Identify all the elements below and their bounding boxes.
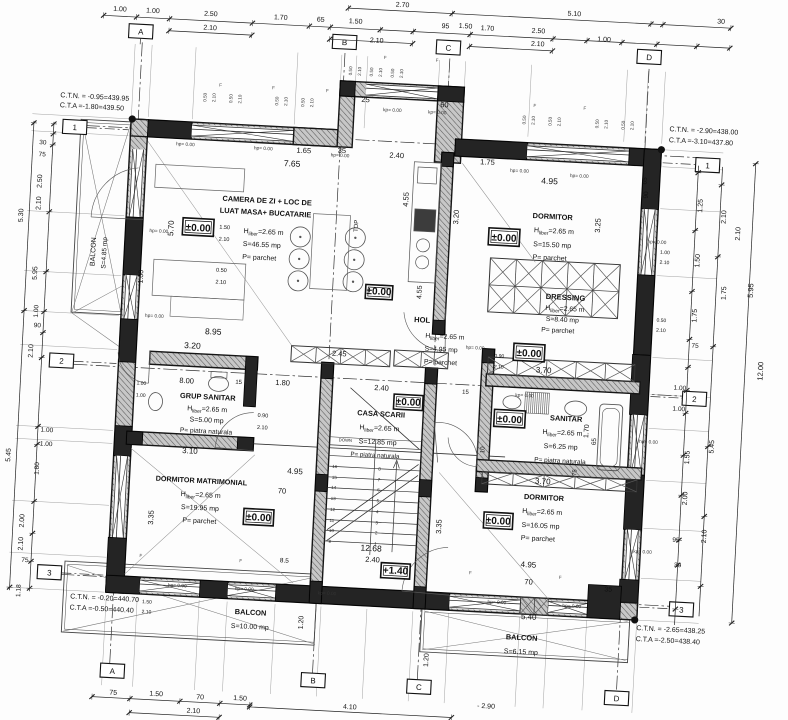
svg-text:hp= 0.00: hp= 0.00 [176,141,195,148]
window west window 2 [123,275,138,320]
wall pier grup sanitar south pier E [237,437,254,451]
svg-text:hp= 0.00: hp= 0.00 [235,586,254,593]
wall bay west [337,81,355,148]
svg-text:hp= 0.00: hp= 0.00 [330,152,349,159]
svg-text:4.55: 4.55 [416,285,424,299]
svg-text:B: B [342,38,348,47]
svg-text:90: 90 [34,322,42,329]
svg-text:hp= 0.00: hp= 0.00 [466,345,485,352]
dimension line top row main [101,12,732,51]
svg-text:DOWN: DOWN [339,437,353,443]
door swing matrimonial door [215,411,254,450]
svg-text:1.00: 1.00 [673,385,686,393]
svg-text:hp= 0.00: hp= 0.00 [149,228,168,235]
svg-text:5.40: 5.40 [521,612,538,622]
svg-text:95: 95 [672,537,680,544]
svg-text:1.70: 1.70 [480,25,494,33]
matrimonial bed diagonals [124,448,299,583]
svg-text:2.10: 2.10 [237,94,242,104]
svg-text:4.10: 4.10 [343,704,357,712]
staircase treads [324,437,422,558]
dimension line top sub 2.10 c [467,43,555,54]
dimension line left outer [6,120,37,590]
svg-text:30: 30 [39,139,47,146]
window west balcony door [128,149,145,218]
svg-text:±0.00: ±0.00 [485,516,511,528]
svg-text:1.75: 1.75 [721,286,729,300]
svg-text:3.20: 3.20 [184,340,201,351]
svg-text:2.10: 2.10 [530,115,535,125]
axis marker C bottom [407,679,432,694]
elevation mark casa scarii [393,394,423,410]
svg-text:2.10: 2.10 [215,280,226,287]
svg-text:4.95: 4.95 [541,175,558,186]
svg-text:2.10: 2.10 [28,344,36,358]
svg-text:65: 65 [642,177,649,185]
axis line B [312,53,345,674]
axis line D [617,69,650,690]
svg-text:F: F [326,88,329,93]
door swing dormitor2 door [432,422,479,457]
wall pier west pier grup [119,319,138,363]
svg-text:F: F [272,85,275,90]
axis marker B top [332,34,357,49]
wall pier east bottom corner [618,579,639,620]
extension lines bottom [102,595,107,685]
svg-text:hp= 0.00: hp= 0.00 [487,599,506,606]
staircase direction arrow [389,460,400,552]
balcony left X diagonals [72,120,131,313]
wall kitchen/dormitor divider (axis C) [432,152,454,334]
wall pier stair E pier bottom [413,586,426,609]
elevation mark dormitor [488,228,520,247]
dimension line bottom row mid [247,704,454,720]
svg-text:16: 16 [332,464,338,469]
svg-text:kp= 0.00: kp= 0.00 [428,109,447,116]
svg-text:F: F [533,103,536,108]
svg-text:2.10: 2.10 [659,260,669,267]
elevation mark stair mid [381,563,411,579]
window west window matrimonial [111,456,128,539]
svg-text:hp= 0.00: hp= 0.00 [254,145,273,152]
svg-text:2.10: 2.10 [219,237,230,244]
wall pier south-west corner block [105,575,140,594]
svg-text:TOP: TOP [354,220,361,233]
svg-text:8.5: 8.5 [280,557,290,564]
svg-text:75: 75 [21,557,29,564]
svg-text:2.40: 2.40 [389,150,404,160]
svg-text:BALCON: BALCON [506,632,538,643]
elevation mark dormitor2 [483,512,513,529]
svg-text:1.50: 1.50 [349,18,363,26]
dormitor top diagonal [457,163,540,262]
svg-text:2.10: 2.10 [35,196,43,210]
svg-text:1.75: 1.75 [691,309,699,323]
svg-text:2.10: 2.10 [556,117,561,127]
svg-text:30: 30 [674,562,682,569]
svg-text:15: 15 [462,390,470,396]
wall pier south-east corner block [587,584,622,619]
svg-text:2.00: 2.00 [19,514,27,528]
svg-text:hp= 0.00: hp= 0.00 [168,582,187,589]
svg-text:0.50: 0.50 [547,116,552,126]
door swing grup sanitar door [117,352,150,383]
svg-text:30: 30 [717,18,725,25]
svg-text:1.50: 1.50 [694,254,702,268]
hatched wardrobe dormitor wardrobe 3.70 [482,472,637,492]
dimension line bottom row left [89,694,252,709]
elevation mark dressing [513,343,545,362]
svg-text:+1.40: +1.40 [383,565,409,577]
wall east exterior (axis D) [620,149,662,620]
hatched wardrobe dressing wardrobe 3.70 [487,357,635,382]
svg-text:2.10: 2.10 [603,119,608,129]
window east window dormitor [640,209,656,276]
staircase break lines [326,387,422,545]
hatched wardrobe south hatched pier [520,597,549,615]
svg-text:2.10: 2.10 [186,708,200,716]
wall sanitar west wall [475,349,494,492]
balcony left outline [71,119,132,314]
svg-text:1.50: 1.50 [459,23,473,31]
svg-text:5.10: 5.10 [567,11,581,19]
svg-text:1.00: 1.00 [33,304,41,317]
axis marker B bottom [301,673,326,688]
axis marker C top [436,40,461,55]
svg-text:2.10: 2.10 [494,364,504,371]
wall stair east wall [413,368,438,609]
svg-text:2.40: 2.40 [374,383,389,393]
wall pier north stub dormitor [455,139,528,160]
svg-text:3.20: 3.20 [451,210,461,225]
wall pier south wall stair bay solid [275,584,450,610]
svg-text:70: 70 [278,486,287,495]
svg-text:1.20: 1.20 [298,615,306,629]
window south window dorm2 [548,600,588,615]
svg-text:0.50: 0.50 [300,97,305,107]
svg-text:2.10: 2.10 [211,93,216,103]
sanitar toilet [503,395,522,409]
wall pier stair E pier top [425,368,438,385]
svg-text:65: 65 [591,437,598,445]
wall pier west pier 3 [114,425,133,456]
hatched wardrobe dressing wardrobe [488,258,621,319]
door swing dressing door [402,312,447,350]
wall grup sanitar north [149,351,258,370]
svg-text:1.25: 1.25 [697,199,705,213]
svg-text:kp= 0.00: kp= 0.00 [383,107,402,114]
svg-text:2.10: 2.10 [378,67,383,77]
svg-text:hp= 0.00: hp= 0.00 [145,313,164,320]
window south door matrimonial [140,579,201,595]
sanitar sink [564,401,587,417]
axis marker A bottom [100,663,125,678]
svg-text:0.90: 0.90 [494,353,504,360]
svg-text:12.00: 12.00 [755,362,765,381]
svg-text:75: 75 [109,690,117,697]
sanitar bathtub [597,404,623,471]
svg-text:F: F [219,82,222,87]
balcony bottom-left outline [61,561,317,645]
wall grup sanitar south [126,431,254,451]
axis line 1 (horizontal dash-dot) [86,126,699,158]
svg-text:0.50: 0.50 [620,120,625,130]
window bay window [366,83,439,100]
svg-text:14: 14 [331,485,337,490]
svg-text:hp= 0.00: hp= 0.00 [570,173,589,180]
axis marker 3 right [669,602,694,617]
dimension line right overall [729,161,759,626]
svg-text:2.10: 2.10 [531,41,545,49]
svg-text:hp= 0.00: hp= 0.00 [562,603,581,610]
svg-text:95: 95 [441,23,449,30]
hatched wardrobe stair landing beam 2.45 [291,346,391,367]
living room construction diagonal [128,128,304,346]
svg-text:C: C [445,43,451,52]
svg-text:D: D [646,53,652,62]
wall pier north stub [147,120,192,139]
svg-text:11: 11 [329,518,334,523]
svg-text:2.70: 2.70 [396,2,410,10]
svg-text:hp= 0.00: hp= 0.00 [647,239,666,246]
elevation mark sanitar [494,409,526,428]
dimension line right second [696,167,726,617]
svg-text:10: 10 [480,446,486,454]
svg-text:8.95: 8.95 [205,326,222,337]
svg-text:1.00: 1.00 [146,8,160,16]
svg-text:1.00: 1.00 [660,250,670,257]
svg-text:13: 13 [331,496,337,501]
svg-text:±0.00: ±0.00 [366,286,392,298]
axis marker 3 left [37,565,62,580]
sofa bottom [152,259,246,300]
svg-text:5.45: 5.45 [709,440,717,454]
svg-text:- 2.90: - 2.90 [477,703,495,711]
wall north wall seg2 [293,127,338,146]
svg-text:2.10: 2.10 [701,529,709,543]
svg-text:2.10: 2.10 [629,121,634,131]
window south door dorm2 [449,595,521,612]
svg-text:2.50: 2.50 [37,174,45,188]
svg-text:70: 70 [196,694,204,701]
wall pier north-east corner [629,148,662,167]
svg-text:35: 35 [604,586,612,593]
sanitar shower [524,392,549,414]
svg-text:SANITAR: SANITAR [550,413,583,424]
svg-text:1.75: 1.75 [480,157,495,167]
axis stubs [61,36,701,609]
staircase step numbers [328,437,383,546]
wall pier bay NE corner [438,86,465,102]
wall pier east pier 2 [634,275,655,356]
svg-text:12.68: 12.68 [360,543,382,554]
svg-text:3.25: 3.25 [593,218,603,233]
svg-text:2.10: 2.10 [399,68,404,78]
svg-text:F: F [384,55,387,60]
window east window sanitar [629,415,645,476]
hatched wardrobe hol lintel beam [394,350,449,369]
svg-text:75: 75 [572,469,578,477]
wall pier south pier [199,580,228,598]
svg-text:F: F [239,558,242,563]
axis marker 1 left [62,119,87,134]
svg-text:2.40: 2.40 [365,555,380,565]
wall stair west wall [309,362,334,603]
dormitor2 diagonals [433,473,554,599]
svg-text:1.20: 1.20 [423,653,431,667]
svg-text:1.18: 1.18 [15,584,23,597]
svg-text:1.70: 1.70 [274,14,288,22]
wall bay east stub (60) [434,86,464,163]
elevation mark matrimonial [243,508,274,526]
wall pier grup sanitar south pier W [126,431,143,445]
svg-text:4.95: 4.95 [520,560,537,570]
svg-text:3.70: 3.70 [536,365,553,375]
svg-text:±0.00: ±0.00 [497,414,523,426]
svg-text:2.10: 2.10 [309,98,314,108]
svg-text:kp= 0.00: kp= 0.00 [515,392,534,399]
svg-text:2.10: 2.10 [370,37,384,45]
axis marker 1 right [695,158,720,173]
svg-text:65: 65 [317,16,325,23]
svg-text:hp= 0.00: hp= 0.00 [510,168,529,175]
corner dot top-right [658,146,666,154]
svg-text:1.00: 1.00 [597,36,611,44]
svg-text:2.10: 2.10 [283,96,288,106]
sofa top [155,164,245,192]
axis line C [417,59,450,680]
extension lines top [131,44,135,116]
grup sanitar toilet [208,376,229,392]
svg-text:1.50: 1.50 [142,599,152,606]
svg-text:15: 15 [332,475,338,480]
svg-text:kp= 0.00: kp= 0.00 [633,549,652,556]
svg-text:F: F [559,575,562,580]
wall pier stair E pier mid [419,480,432,498]
svg-text:BALCON: BALCON [235,607,267,618]
svg-text:2.10: 2.10 [735,227,743,241]
svg-text:2.00: 2.00 [682,491,690,505]
svg-text:2.45: 2.45 [332,349,347,359]
svg-text:F: F [139,553,142,558]
wall north wall right (axis 1 east) [455,139,662,167]
elevation mark camera [182,218,214,237]
svg-text:5.30: 5.30 [18,208,26,222]
svg-text:7.65: 7.65 [284,158,301,169]
svg-text:1.55: 1.55 [684,450,692,464]
window south window matrimonial [227,584,276,599]
dimension line top row outer [346,5,734,31]
svg-text:3.35: 3.35 [146,510,156,525]
svg-text:10: 10 [329,528,335,533]
svg-text:0.50: 0.50 [522,115,527,125]
grup sanitar sink [148,392,163,411]
wall pier divider bottom pier [432,320,445,335]
svg-text:0.50: 0.50 [656,318,666,325]
axis marker D top [637,49,662,64]
wall pier east pier 3 [623,474,644,530]
svg-text:0.50: 0.50 [390,68,395,78]
svg-text:2.10: 2.10 [656,328,666,335]
svg-text:1.00: 1.00 [136,393,146,400]
svg-text:1.50: 1.50 [233,695,247,703]
svg-text:5.95: 5.95 [746,283,756,298]
dimension line right main [672,166,702,626]
corner dot bottom-right [631,616,639,624]
svg-text:4.55: 4.55 [401,192,411,207]
svg-text:F: F [469,570,472,575]
wall bay north [340,81,465,102]
svg-text:2.10: 2.10 [18,537,26,551]
svg-text:±0.00: ±0.00 [491,232,517,244]
wall pier sanitar W pier top [482,349,495,364]
svg-text:±0.00: ±0.00 [185,222,211,234]
svg-text:F: F [436,58,439,63]
axis line 3 [60,574,673,606]
svg-text:D: D [613,694,619,703]
svg-text:0.90: 0.90 [257,413,268,420]
wall pier grup sanitar pier east [243,356,258,407]
svg-text:60: 60 [440,100,449,109]
wall north wall left (axis 1) [130,119,338,147]
door swing dorm2 balcony door [402,545,448,593]
svg-text:1.00: 1.00 [40,441,53,449]
svg-text:5.45: 5.45 [5,448,13,462]
svg-text:0.50: 0.50 [216,268,227,275]
svg-text:70: 70 [524,577,533,586]
svg-text:±0.00: ±0.00 [516,348,542,360]
wall south wall (axis 3) [106,575,637,620]
wall pier stair W pier mid [315,474,328,492]
wall sanitar south wall [476,459,641,480]
svg-text:1.00: 1.00 [40,427,53,435]
svg-text:2.10: 2.10 [257,425,268,432]
dimension line left main [26,121,57,591]
wall pier stair W pier bottom [309,581,322,604]
svg-text:1.50: 1.50 [219,225,230,232]
svg-text:2.10: 2.10 [721,210,729,224]
wall pier east pier top [641,149,661,210]
wall pier divider top pier [441,152,454,167]
svg-text:3.10: 3.10 [182,446,199,456]
kitchen counter [408,162,441,283]
wall pier west pier mid [123,217,143,276]
svg-text:C: C [416,683,422,692]
svg-text:2.10: 2.10 [141,609,151,616]
wall pier stair W pier top [321,362,334,379]
svg-text:1.70: 1.70 [583,424,591,438]
svg-text:1.65: 1.65 [296,146,311,156]
svg-text:2.10: 2.10 [357,66,362,76]
svg-text:12: 12 [330,507,336,512]
wall pier east pier axis2 [629,354,650,415]
axis marker D bottom [604,690,629,705]
svg-text:2.50: 2.50 [204,11,218,19]
wall west exterior (axis A) [106,119,148,593]
svg-text:±0.00: ±0.00 [396,397,422,409]
dimension line top sub 2.10 b [327,36,415,47]
svg-text:1.80: 1.80 [34,462,42,475]
wall pier bay NW corner [340,81,356,97]
svg-text:1.00: 1.00 [138,270,146,284]
svg-text:B: B [310,676,316,685]
svg-text:5.95: 5.95 [32,266,40,280]
svg-text:0.50: 0.50 [594,119,599,129]
svg-text:75: 75 [38,151,46,158]
axis marker 2 left [49,353,74,368]
svg-text:90: 90 [643,191,650,199]
extension lines left [32,114,129,119]
